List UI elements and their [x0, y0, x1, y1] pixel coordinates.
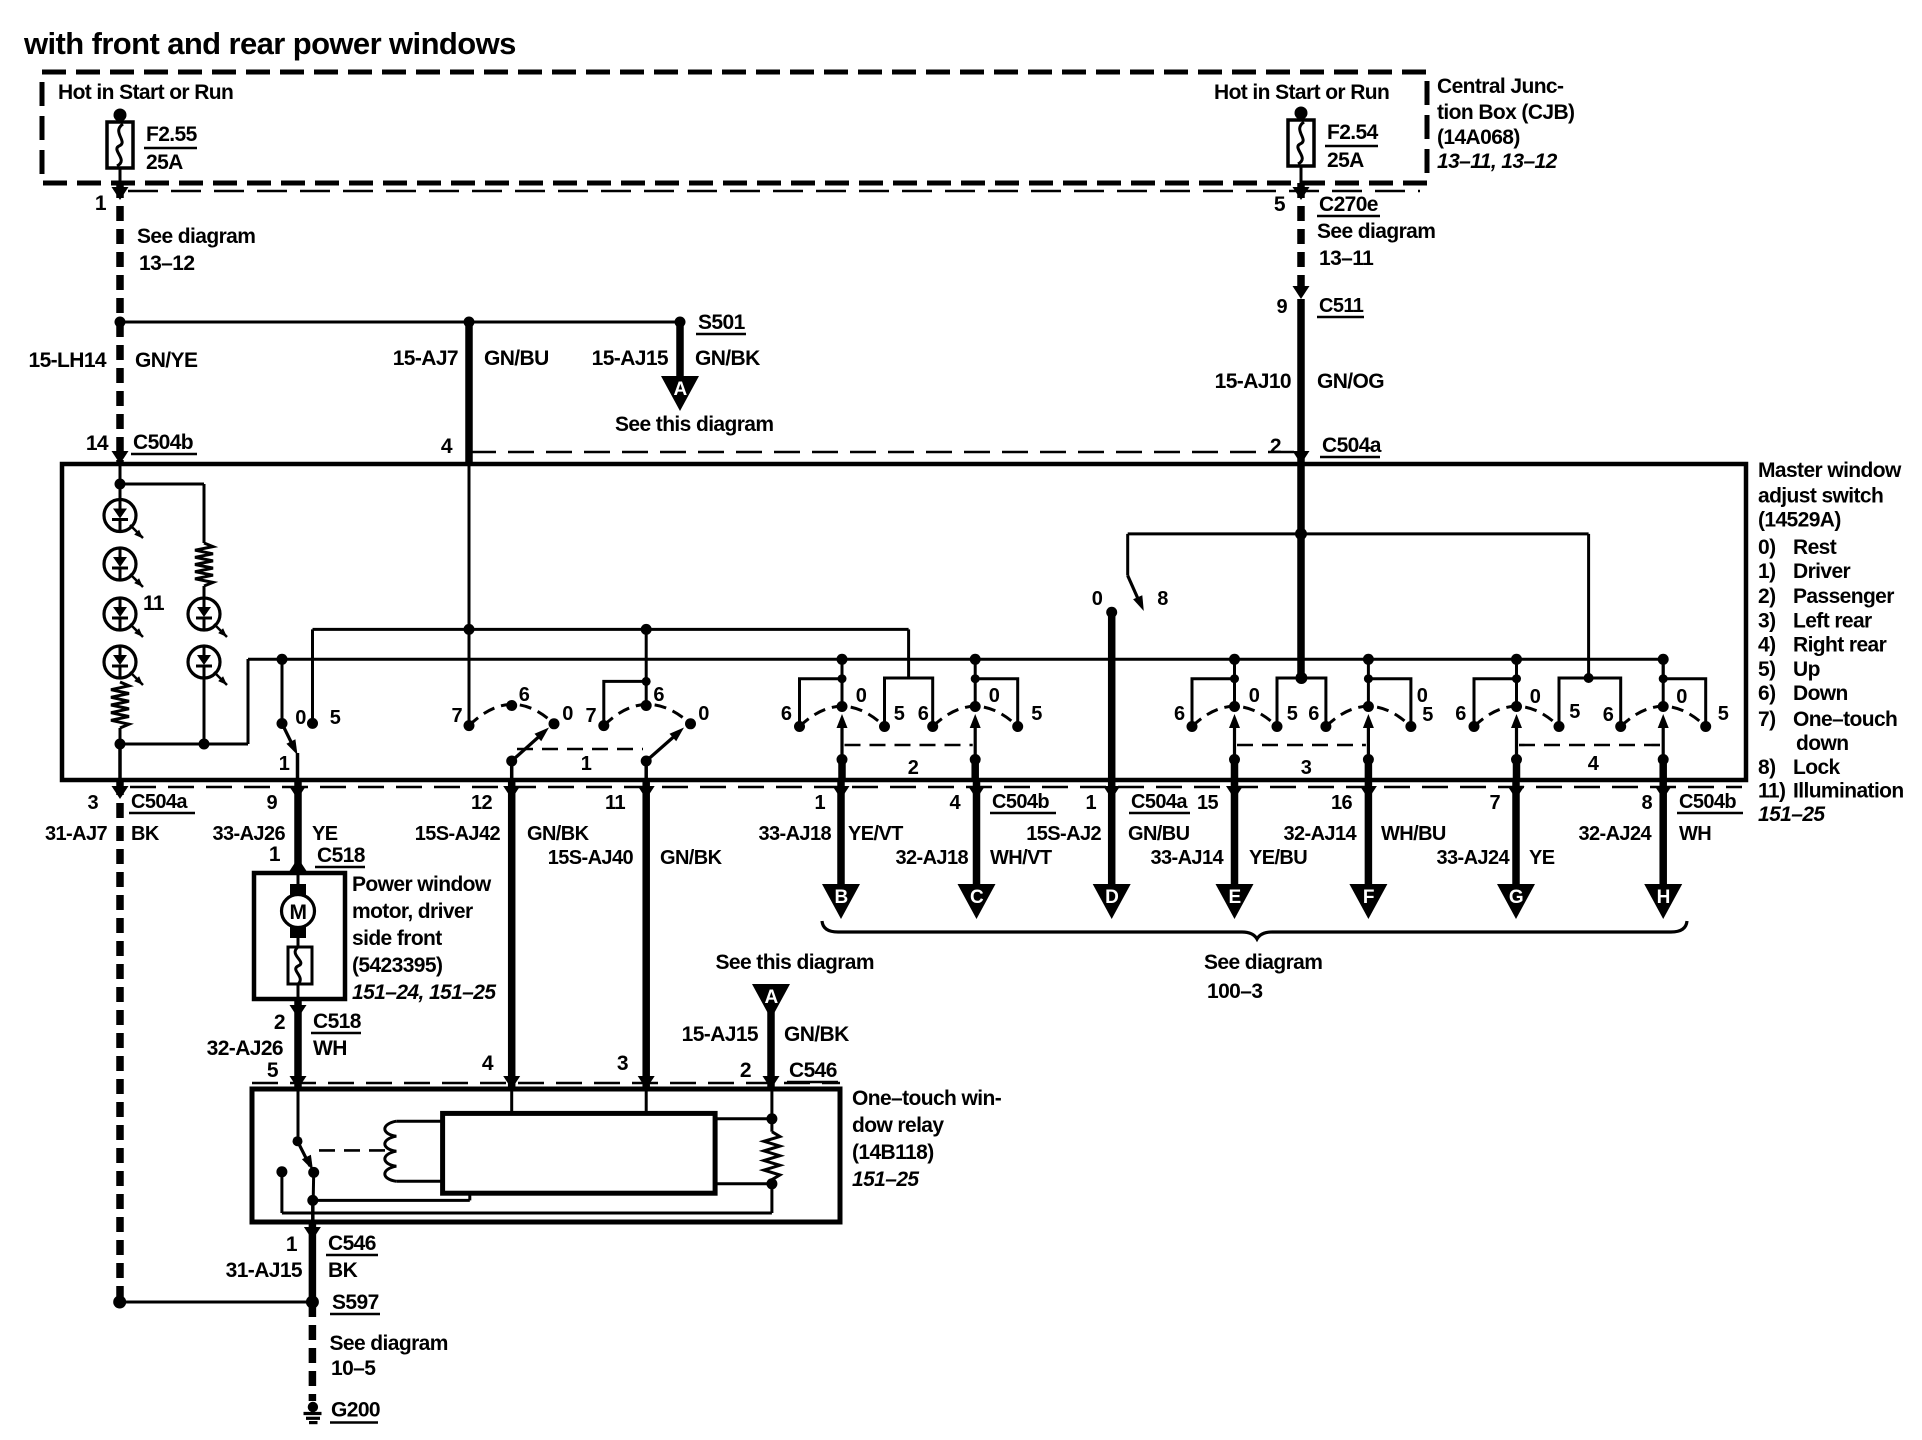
right rear window switch (pins 7/8)	[1469, 654, 1712, 780]
label pin 4	[441, 435, 453, 458]
svg-text:6: 6	[1603, 704, 1614, 726]
svg-text:A: A	[764, 987, 778, 1008]
svg-text:33-AJ26: 33-AJ26	[212, 823, 285, 845]
contact dot 7	[598, 720, 609, 731]
label 0	[295, 707, 306, 729]
svg-text:C546: C546	[789, 1059, 837, 1082]
lock contact dot	[1106, 607, 1117, 618]
label 15-AJ15 GN/BK	[592, 347, 760, 370]
svg-text:4: 4	[441, 435, 453, 458]
wire lock to pin 1 (C504a)	[1108, 612, 1116, 780]
svg-text:7: 7	[451, 705, 462, 727]
connector C504 dashed line (bottom)	[130, 786, 1742, 789]
svg-text:S597: S597	[332, 1291, 379, 1314]
label S597	[330, 1291, 380, 1314]
svg-text:Master window: Master window	[1758, 459, 1902, 482]
svg-text:0: 0	[856, 685, 867, 707]
connector arrow	[112, 786, 129, 799]
label 4	[1588, 753, 1600, 775]
wire 15-LH14 (S501 to pin 14)	[116, 322, 124, 462]
connector arrow C504b pin 14	[112, 451, 129, 464]
svg-text:BK: BK	[328, 1259, 358, 1282]
wire pin 14 into box	[119, 464, 122, 500]
relay wire to coil	[313, 1193, 470, 1200]
label pin 2 / C546	[740, 1059, 838, 1082]
connector arrow C546	[638, 1076, 655, 1089]
svg-text:4: 4	[949, 792, 961, 814]
label C504a pin 15 / 33-AJ14 YE/BU	[1129, 791, 1307, 869]
label 1	[581, 753, 592, 775]
fuse F2.55 lead	[119, 168, 122, 183]
relay contact dot	[308, 1167, 319, 1178]
label 1	[279, 753, 290, 775]
svg-text:1: 1	[814, 792, 825, 814]
wire to arrow B	[837, 780, 845, 886]
svg-text:12: 12	[471, 792, 493, 814]
feed to passenger bracket (from up bus)	[0, 0, 1, 1]
svg-text:See diagram: See diagram	[1204, 951, 1322, 974]
svg-text:8: 8	[1157, 588, 1168, 610]
svg-text:F2.55: F2.55	[146, 123, 198, 146]
svg-text:Right rear: Right rear	[1793, 634, 1887, 657]
junction dot	[464, 317, 475, 328]
svg-text:8): 8)	[1758, 756, 1775, 779]
svg-text:GN/BK: GN/BK	[695, 347, 760, 370]
illumination lamp	[188, 598, 227, 637]
off-page arrow H	[1644, 884, 1682, 919]
svg-text:4: 4	[482, 1052, 494, 1075]
svg-text:GN/OG: GN/OG	[1317, 370, 1384, 393]
label See diagram 10-5	[330, 1332, 448, 1380]
svg-text:WH/BU: WH/BU	[1381, 823, 1446, 845]
label 8	[1157, 588, 1168, 610]
svg-text:32-AJ18: 32-AJ18	[895, 847, 968, 869]
svg-text:0: 0	[1092, 588, 1103, 610]
wire 31-AJ7 (pin 3 to S597)	[116, 780, 124, 1302]
label pin 2 / C504a	[1270, 434, 1382, 458]
label 5	[894, 703, 905, 725]
connector C511 arrow	[1293, 286, 1310, 299]
switch arm feed	[281, 659, 284, 723]
label 0	[1249, 685, 1260, 707]
power window motor box	[254, 873, 345, 999]
wire to arrow D	[1108, 780, 1116, 886]
junction dot	[115, 739, 126, 750]
junction dot	[199, 739, 210, 750]
svg-text:100–3: 100–3	[1207, 980, 1262, 1003]
svg-text:(14B118): (14B118)	[852, 1141, 934, 1164]
svg-text:C511: C511	[1319, 295, 1364, 317]
label pin 14 / C504b	[86, 431, 197, 455]
svg-text:BK: BK	[131, 823, 160, 845]
label master window adjust switch	[1758, 459, 1902, 532]
svg-text:0: 0	[698, 703, 709, 725]
lock switch drop	[1126, 534, 1129, 576]
svg-text:25A: 25A	[146, 151, 183, 174]
svg-text:C546: C546	[328, 1232, 376, 1255]
svg-text:4: 4	[1588, 753, 1600, 775]
label 2	[908, 757, 919, 779]
svg-text:GN/BK: GN/BK	[527, 823, 590, 845]
wire 15S-AJ42 (pin 12 to relay pin 4)	[508, 780, 516, 1089]
svg-text:YE/BU: YE/BU	[1249, 847, 1307, 869]
svg-text:C504a: C504a	[1322, 434, 1382, 457]
svg-text:3: 3	[617, 1052, 628, 1075]
label pin 4 / 32-AJ18 WH/VT	[895, 792, 1051, 869]
off-page arrow B	[822, 884, 860, 919]
label See diagram 13-12	[137, 225, 255, 275]
svg-text:13–11: 13–11	[1319, 247, 1374, 270]
svg-text:9: 9	[1276, 296, 1287, 318]
svg-text:5: 5	[267, 1059, 279, 1082]
junction dot	[277, 654, 288, 665]
connector arrow	[289, 786, 306, 799]
wire 15-AJ15 (A to relay pin 2)	[767, 1012, 775, 1089]
svg-text:GN/BK: GN/BK	[784, 1023, 849, 1046]
connector C518 arrow (pin 1)	[290, 858, 307, 871]
connector arrow	[1226, 786, 1243, 799]
motor wire	[297, 938, 300, 947]
master window adjust switch box	[62, 464, 1746, 780]
label 6	[519, 684, 530, 706]
svg-text:1: 1	[269, 843, 281, 866]
splice S597 wire	[120, 1301, 313, 1304]
splice S597 dot	[306, 1296, 319, 1309]
label 6	[653, 684, 664, 706]
up-feed bus (5)	[313, 629, 909, 678]
svg-text:GN/BU: GN/BU	[484, 347, 549, 370]
svg-text:32-AJ24: 32-AJ24	[1578, 823, 1652, 845]
wire 31-AJ15 (relay pin 1)	[311, 1200, 315, 1302]
wire to ground G200	[309, 1302, 317, 1401]
svg-text:6: 6	[519, 684, 530, 706]
label Hot in Start or Run (left)	[58, 81, 233, 104]
label 15-AJ7 GN/BU	[393, 347, 549, 370]
svg-text:C518: C518	[317, 844, 366, 867]
mechanical link	[517, 748, 643, 751]
svg-text:0: 0	[562, 703, 573, 725]
svg-text:1: 1	[286, 1233, 298, 1256]
fuse F2.54 25A	[1288, 107, 1314, 167]
label 3	[1301, 757, 1312, 779]
relay wire	[770, 1184, 773, 1213]
switch arm	[646, 728, 684, 762]
label 7	[585, 705, 596, 727]
label pin 7 / 33-AJ24 YE	[1436, 792, 1554, 869]
wire 15-AJ15 (S501 to A)	[676, 322, 684, 377]
svg-text:C: C	[970, 887, 984, 908]
svg-text:WH: WH	[1679, 823, 1711, 845]
svg-text:tion Box (CJB): tion Box (CJB)	[1437, 101, 1574, 124]
svg-text:D: D	[1105, 887, 1118, 908]
junction dot	[642, 677, 651, 686]
svg-text:15: 15	[1197, 792, 1219, 814]
wire to arrow H	[1659, 780, 1667, 886]
svg-text:2): 2)	[1758, 585, 1775, 608]
svg-text:Hot in Start or Run: Hot in Start or Run	[58, 81, 233, 104]
svg-text:Hot in Start or Run: Hot in Start or Run	[1214, 81, 1389, 104]
svg-text:C504a: C504a	[131, 791, 188, 813]
label pin 16 / 32-AJ14 WH/BU	[1283, 792, 1445, 845]
motor terminal	[290, 884, 306, 895]
svg-text:15-AJ15: 15-AJ15	[682, 1023, 759, 1046]
connector arrow C546	[763, 1076, 780, 1089]
svg-text:151–25: 151–25	[1758, 803, 1825, 826]
svg-text:13–12: 13–12	[139, 252, 194, 275]
svg-text:5: 5	[330, 707, 341, 729]
motor terminal	[290, 927, 306, 938]
label S501	[696, 311, 746, 334]
off-page arrow D	[1093, 884, 1131, 919]
label pin 9 / C511	[1276, 295, 1364, 318]
relay stationary contact dot	[276, 1166, 287, 1177]
svg-text:GN/BU: GN/BU	[1128, 823, 1190, 845]
junction dot	[115, 317, 126, 328]
label 5	[1422, 704, 1433, 726]
svg-text:YE: YE	[312, 823, 338, 845]
fuse F2.54 lead	[1300, 166, 1303, 183]
contact dot	[307, 718, 318, 729]
svg-text:(14529A): (14529A)	[1758, 509, 1841, 532]
svg-text:One–touch: One–touch	[1793, 708, 1897, 731]
svg-text:GN/YE: GN/YE	[135, 349, 198, 372]
contact dot 7	[464, 720, 475, 731]
label 15-AJ15 GN/BK	[682, 1023, 849, 1046]
svg-text:S501: S501	[698, 311, 746, 334]
label 15-AJ10 GN/OG	[1215, 370, 1385, 393]
relay mech link	[319, 1149, 391, 1152]
lock switch arm	[1128, 576, 1144, 611]
label pin 1 / C518	[269, 843, 366, 867]
junction dot	[1295, 672, 1307, 684]
svg-text:5: 5	[1422, 704, 1433, 726]
motor M	[282, 895, 315, 928]
label pin 3 / C504a / BK / 31-AJ7	[45, 791, 195, 845]
connector arrow pin 1	[112, 187, 129, 200]
svg-text:C504a: C504a	[1131, 791, 1188, 813]
svg-text:31-AJ7: 31-AJ7	[45, 823, 107, 845]
relay wire	[312, 1172, 316, 1200]
svg-text:C518: C518	[313, 1010, 362, 1033]
label one-touch window relay	[852, 1087, 1002, 1191]
relay switch feed	[297, 1089, 300, 1141]
title	[23, 26, 516, 61]
connector arrow	[1655, 786, 1672, 799]
svg-text:32-AJ14: 32-AJ14	[1283, 823, 1357, 845]
svg-text:32-AJ26: 32-AJ26	[207, 1037, 283, 1060]
wire 15-AJ10 (fuse F2.54 to C511)	[1297, 183, 1305, 287]
svg-text:1: 1	[1085, 792, 1096, 814]
svg-text:Illumination: Illumination	[1793, 780, 1904, 803]
label 0	[1676, 686, 1687, 708]
off-page arrow A	[661, 376, 699, 411]
junction dot	[641, 624, 652, 635]
ground G200 symbol	[304, 1402, 322, 1423]
wire 15-LH14 (fuse F2.55 to S501)	[116, 183, 124, 322]
svg-text:151–24, 151–25: 151–24, 151–25	[352, 981, 496, 1004]
wire to arrow F	[1365, 780, 1373, 886]
label 5	[1287, 703, 1298, 725]
connector arrow C504a pin 2	[1293, 451, 1310, 464]
svg-text:One–touch win-: One–touch win-	[852, 1087, 1002, 1110]
connector arrow	[503, 786, 520, 799]
svg-text:adjust switch: adjust switch	[1758, 485, 1883, 508]
svg-text:1): 1)	[1758, 560, 1775, 583]
relay coil	[385, 1121, 443, 1181]
svg-text:11): 11)	[1758, 780, 1785, 803]
wire 15-AJ7 (S501 to pin 4)	[465, 322, 473, 464]
svg-text:dow relay: dow relay	[852, 1114, 944, 1137]
resistor (second branch)	[195, 543, 213, 586]
relay stub	[715, 1182, 772, 1185]
label pin 11 / 15S-AJ40 GN/BK	[548, 792, 723, 869]
label See diagram 100-3	[1204, 951, 1322, 1003]
svg-text:GN/BK: GN/BK	[660, 847, 723, 869]
left rear window switch (pins 15/16)	[1187, 654, 1417, 780]
connector arrow	[1103, 786, 1120, 799]
feed from up bus	[645, 629, 648, 705]
svg-text:0: 0	[1530, 686, 1541, 708]
svg-text:B: B	[834, 887, 847, 908]
label 0	[698, 703, 709, 725]
wire	[203, 586, 206, 598]
connector arrow C546	[290, 1076, 307, 1089]
wire to arrow E	[1231, 780, 1239, 886]
svg-text:See this diagram: See this diagram	[716, 951, 874, 974]
svg-text:15S-AJ2: 15S-AJ2	[1026, 823, 1101, 845]
wire pin 3 inside box	[118, 744, 122, 780]
svg-text:C504b: C504b	[992, 791, 1049, 813]
label 7	[451, 705, 462, 727]
contact dot 0	[685, 718, 696, 729]
rocker arc	[469, 704, 554, 725]
wire to pin 9	[296, 753, 300, 780]
label Hot in Start or Run (right)	[1214, 81, 1389, 104]
svg-text:5: 5	[1718, 703, 1729, 725]
wire 15S-AJ40 (pin 11 to relay pin 3)	[642, 780, 650, 1089]
label G200	[330, 1399, 380, 1423]
svg-text:(5423395): (5423395)	[352, 954, 442, 977]
svg-text:C504b: C504b	[133, 431, 193, 454]
illumination lamp	[104, 598, 143, 637]
CJB inner dashed line	[128, 190, 1420, 193]
relay stub	[715, 1117, 772, 1120]
label 11 (illumination)	[143, 592, 165, 615]
CJB name text	[1437, 75, 1574, 173]
svg-text:0: 0	[295, 707, 306, 729]
svg-text:3): 3)	[1758, 610, 1775, 633]
illumination lamp	[188, 646, 227, 685]
junction dot	[113, 1296, 126, 1309]
svg-text:4): 4)	[1758, 634, 1775, 657]
junction dot	[115, 479, 126, 490]
wire to pin 12	[510, 761, 514, 780]
svg-text:0: 0	[1676, 686, 1687, 708]
svg-text:6: 6	[1308, 703, 1319, 725]
label See diagram 13-11	[1317, 220, 1435, 270]
resistor (lamp chain)	[111, 682, 129, 728]
junction dot	[1295, 528, 1307, 540]
svg-text:5: 5	[1569, 701, 1580, 723]
svg-text:C270e: C270e	[1319, 193, 1378, 216]
wire 15-AJ7 pin4 to contact 7	[468, 464, 471, 726]
label pin 1 / C546 / 31-AJ15 BK	[226, 1232, 378, 1282]
off-page arrow A (incoming)	[752, 984, 790, 1019]
svg-text:Central Junc-: Central Junc-	[1437, 75, 1564, 98]
wire 33-AJ26 (pin 9 to motor)	[294, 780, 302, 873]
svg-text:side front: side front	[352, 927, 442, 950]
svg-text:13–11, 13–12: 13–11, 13–12	[1437, 150, 1558, 173]
label See this diagram (A)	[716, 951, 874, 974]
svg-text:2: 2	[908, 757, 919, 779]
svg-text:8: 8	[1641, 792, 1652, 814]
svg-text:33-AJ24: 33-AJ24	[1436, 847, 1510, 869]
label 15-LH14 GN/YE	[28, 349, 197, 372]
wire rail to bus	[247, 659, 250, 744]
CJB pin 5	[1274, 193, 1286, 216]
passenger window switch (pins 1/4)	[794, 654, 1023, 780]
contact 7 bracket	[604, 681, 646, 725]
label 5	[1569, 701, 1580, 723]
wire	[203, 678, 206, 746]
svg-text:F2.54: F2.54	[1327, 121, 1379, 144]
svg-text:9: 9	[266, 792, 277, 814]
connector arrow	[968, 786, 985, 799]
label pin 3	[617, 1052, 628, 1075]
label 5	[1031, 703, 1042, 725]
svg-text:7): 7)	[1758, 708, 1775, 731]
connector arrow pin 5	[1293, 187, 1310, 200]
svg-text:15-AJ15: 15-AJ15	[592, 347, 669, 370]
junction dot	[307, 1195, 318, 1206]
svg-text:11: 11	[143, 592, 165, 615]
label pin 9 / 33-AJ26 YE	[212, 792, 337, 845]
wire to arrow G	[1512, 780, 1520, 886]
switch position legend	[1758, 536, 1904, 826]
svg-text:M: M	[290, 901, 307, 924]
label 6	[1603, 704, 1614, 726]
svg-text:6: 6	[918, 703, 929, 725]
svg-text:5: 5	[1031, 703, 1042, 725]
label 0	[1530, 686, 1541, 708]
junction dot	[766, 1113, 777, 1124]
svg-text:YE/VT: YE/VT	[848, 823, 903, 845]
svg-text:7: 7	[585, 705, 596, 727]
svg-text:motor, driver: motor, driver	[352, 900, 473, 923]
relay resistor	[764, 1132, 780, 1180]
label pin 8 / 32-AJ24 / C504b WH	[1578, 791, 1743, 845]
svg-text:0): 0)	[1758, 536, 1775, 559]
off-page arrow C	[958, 884, 996, 919]
connector arrow	[1508, 786, 1525, 799]
svg-text:33-AJ18: 33-AJ18	[758, 823, 831, 845]
off-page arrow F	[1349, 884, 1387, 919]
common feed bus	[248, 659, 1663, 678]
svg-text:1: 1	[279, 753, 290, 775]
contact dot 6	[506, 700, 517, 711]
motor wire	[297, 984, 300, 999]
connector C504 dashed line (top)	[470, 451, 1300, 454]
svg-text:Passenger: Passenger	[1793, 585, 1894, 608]
splice S501 dot	[675, 317, 686, 328]
svg-text:WH: WH	[313, 1037, 347, 1060]
svg-text:31-AJ15: 31-AJ15	[226, 1259, 303, 1282]
connector C518 arrow (pin 2)	[290, 1005, 307, 1018]
junction dot	[464, 624, 475, 635]
svg-text:151–25: 151–25	[852, 1168, 919, 1191]
label See this diagram	[615, 413, 773, 436]
svg-text:33-AJ14: 33-AJ14	[1150, 847, 1224, 869]
